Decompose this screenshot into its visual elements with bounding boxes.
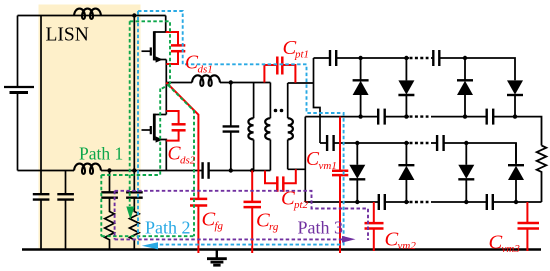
svg-text:C: C (281, 188, 295, 210)
svg-text:pt2: pt2 (293, 199, 309, 211)
svg-text:pt1: pt1 (294, 49, 309, 61)
svg-text:Path 1: Path 1 (79, 144, 123, 164)
svg-text:LISN: LISN (46, 25, 89, 46)
svg-text:Path 3: Path 3 (298, 218, 344, 238)
svg-text:ds2: ds2 (180, 155, 196, 167)
svg-text:C: C (385, 229, 399, 251)
svg-text:C: C (202, 209, 216, 231)
svg-text:Path 2: Path 2 (145, 218, 191, 238)
svg-text:C: C (489, 232, 503, 254)
svg-text:ds1: ds1 (198, 64, 213, 76)
svg-text:fg: fg (215, 220, 224, 232)
svg-text:rg: rg (269, 221, 279, 233)
svg-text:vm2: vm2 (398, 240, 417, 252)
svg-text:vm1: vm1 (319, 160, 337, 172)
svg-text:C: C (256, 210, 270, 232)
svg-text:vm3: vm3 (502, 243, 521, 255)
